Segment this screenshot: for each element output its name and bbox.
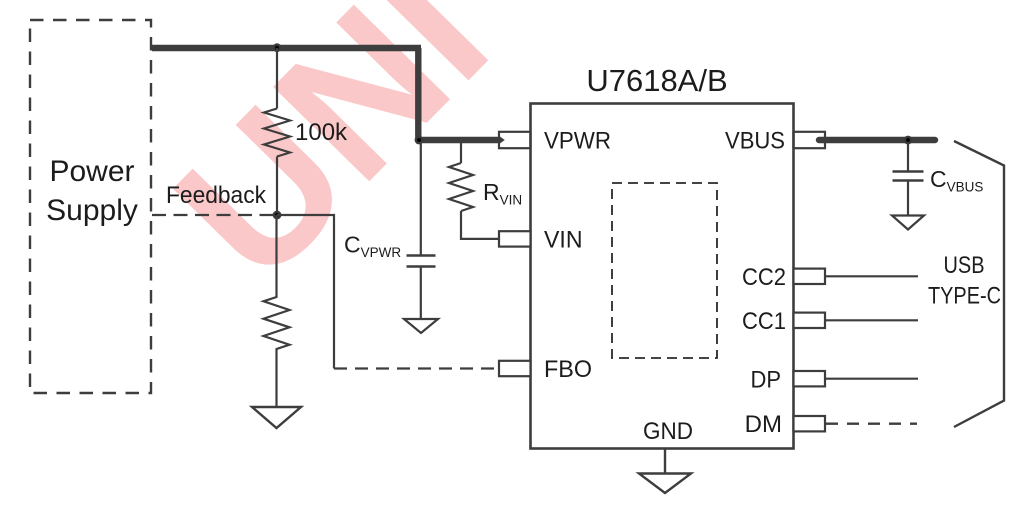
svg-text:DP: DP <box>751 367 782 394</box>
wire CVPWR to ground <box>420 267 422 319</box>
pin FBO <box>499 361 531 376</box>
power supply box <box>30 20 151 393</box>
wire DM dashed <box>826 423 917 425</box>
wire CC2 <box>825 275 918 277</box>
capacitor CVBUS <box>893 172 924 181</box>
wire GND stub <box>664 449 666 474</box>
svg-text:100k: 100k <box>295 119 348 146</box>
wire thick VPWR bus top <box>152 45 421 51</box>
svg-text:Power: Power <box>49 155 134 188</box>
svg-text:CC2: CC2 <box>742 264 786 291</box>
wire feedback dashed <box>152 214 277 216</box>
node CVBUS tap <box>904 136 913 145</box>
svg-text:DM: DM <box>745 411 782 438</box>
pin VIN <box>499 231 531 246</box>
wire CVBUS to ground <box>907 181 909 216</box>
ground below GND pin <box>639 474 691 494</box>
capacitor CVPWR <box>407 256 436 267</box>
svg-text:Feedback: Feedback <box>166 182 267 209</box>
svg-text:U7618A/B: U7618A/B <box>586 63 727 98</box>
wire feedback node to FBO corner <box>277 215 334 369</box>
wire thick to VPWR pin <box>418 137 500 143</box>
svg-text:GND: GND <box>643 418 693 445</box>
pin CC2 <box>794 269 826 284</box>
svg-text:TYPE-C: TYPE-C <box>928 283 1001 310</box>
wire 100k to feedback node <box>276 157 278 216</box>
resistor 100k <box>264 109 290 157</box>
wire RVIN top tap <box>460 143 462 163</box>
svg-text:VBUS: VBUS <box>725 128 785 155</box>
wire thick VBUS <box>819 137 935 143</box>
wire FBO dashed <box>334 367 500 369</box>
wire corner to CVPWR <box>420 142 422 255</box>
svg-text:FBO: FBO <box>544 356 592 383</box>
wire DP <box>825 378 918 380</box>
USB type-c connector bracket <box>954 141 1004 427</box>
wire top to 100k <box>276 48 278 109</box>
wire CC1 <box>825 319 918 321</box>
pin DM <box>794 416 826 431</box>
inner dashed block <box>612 183 717 358</box>
svg-text:USB: USB <box>944 252 985 279</box>
ground below CVBUS <box>892 216 924 230</box>
watermark UNI <box>135 0 528 321</box>
wire RVIN to VIN pin <box>461 211 500 239</box>
resistor RVIN <box>449 163 473 211</box>
node VPWR corner junction <box>415 136 424 145</box>
node feedback junction <box>273 211 282 220</box>
pin VPWR <box>499 132 531 148</box>
pin CC1 <box>794 313 826 328</box>
pin DP <box>794 371 826 386</box>
svg-text:VPWR: VPWR <box>544 128 611 155</box>
pin VBUS <box>794 132 826 148</box>
svg-text:VIN: VIN <box>544 227 583 254</box>
wire thick VPWR bus vertical <box>415 48 421 140</box>
node 100k tap <box>273 43 282 52</box>
resistor lower divider <box>264 215 290 406</box>
op chip U7618A/B body <box>531 104 794 449</box>
ground below divider <box>252 407 301 428</box>
wire VBUS to CVBUS <box>907 142 909 171</box>
svg-text:Supply: Supply <box>46 194 138 227</box>
svg-text:CC1: CC1 <box>742 308 786 335</box>
ground below CVPWR <box>404 319 438 333</box>
